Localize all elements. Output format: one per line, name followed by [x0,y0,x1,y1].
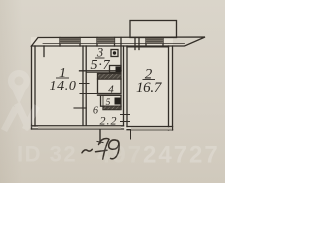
svg-text:6: 6 [93,106,98,117]
svg-text:497: 497 [97,142,143,169]
svg-text:16.7: 16.7 [136,80,163,96]
svg-text:4: 4 [108,84,114,96]
svg-text:24727: 24727 [143,142,220,169]
svg-text:14.0: 14.0 [50,79,77,94]
svg-text:5: 5 [106,98,111,108]
svg-text:2.2: 2.2 [100,114,118,128]
svg-text:5·7: 5·7 [91,58,111,73]
svg-text:ID 32: ID 32 [17,142,77,167]
